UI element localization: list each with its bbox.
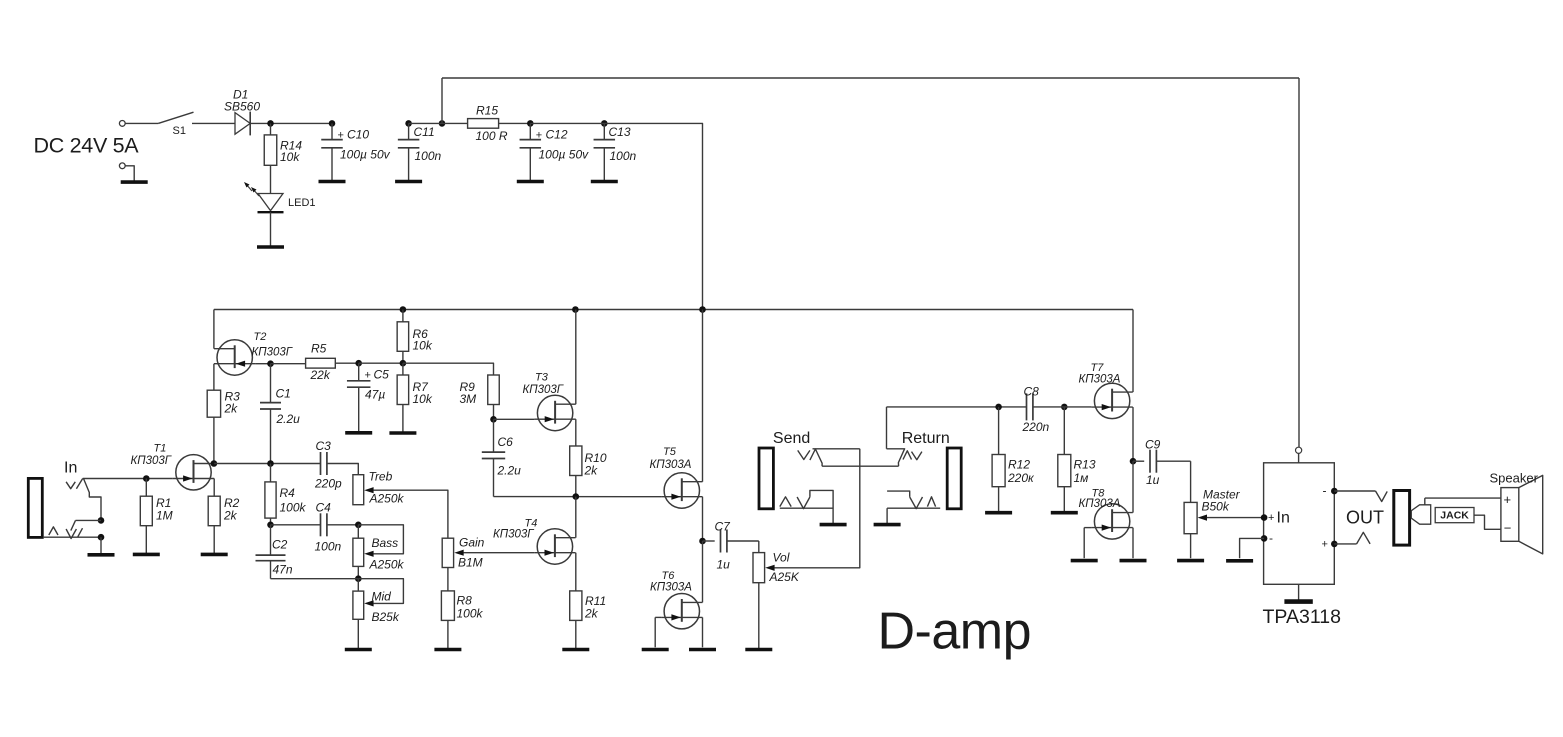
ground for TPA3118 (1284, 599, 1312, 604)
ground for return jack (874, 523, 901, 527)
node rail T3 junction (572, 306, 579, 313)
text Gain value B1M (458, 556, 483, 570)
wire R10 to signal node (575, 476, 577, 497)
input jack ring line (43, 536, 101, 538)
svg-text:47µ: 47µ (365, 388, 385, 402)
potentiometer Master (1184, 502, 1197, 533)
node V+ takeoff junction (439, 120, 446, 127)
svg-text:Gain: Gain (459, 535, 485, 549)
node C1 R4 junction (267, 460, 274, 467)
svg-text:B50k: B50k (1202, 500, 1230, 514)
text T6 type KP303A (650, 582, 692, 594)
wire send tip to Vol riser (813, 448, 860, 450)
svg-text:10k: 10k (413, 339, 433, 353)
wire input ground stem (100, 537, 102, 554)
node input switch junction (98, 517, 105, 524)
capacitor C12 (520, 123, 542, 181)
svg-text:2.2u: 2.2u (276, 412, 301, 426)
svg-text:2k: 2k (223, 508, 238, 522)
capacitor C13 (594, 123, 616, 181)
node T1 drain junction (211, 460, 218, 467)
svg-text:2.2u: 2.2u (497, 463, 522, 477)
capacitor C5 (347, 363, 371, 432)
text R12 value 220k (1007, 471, 1035, 485)
text T1 type KP303G (131, 455, 172, 467)
text TPA minus input sign (1269, 531, 1273, 545)
wire Gain wiper to T4 gate (464, 552, 535, 554)
svg-text:T1: T1 (154, 443, 167, 455)
svg-text:Vol: Vol (773, 551, 790, 565)
svg-text:B1M: B1M (458, 556, 483, 570)
node C12 junction (527, 120, 534, 127)
wire R7 to ground (402, 405, 404, 433)
node TPA out minus pin (1331, 488, 1338, 495)
text T2 label (254, 331, 267, 343)
wire negative terminal to ground (125, 166, 134, 182)
capacitor C2 (256, 525, 286, 579)
svg-text:SB560: SB560 (224, 100, 260, 114)
text T1 label (154, 443, 167, 455)
text speaker minus terminal (1504, 521, 1512, 536)
ground for C5 (345, 431, 372, 435)
transistor T7 (1091, 383, 1132, 418)
send jack ring contact (797, 497, 810, 509)
text C6 label (498, 435, 514, 449)
text S1 label (173, 125, 186, 137)
text C7 value 1u (717, 558, 731, 572)
text T7 label (1091, 362, 1105, 374)
potentiometer Bass (353, 538, 364, 566)
send jack ring stub (810, 490, 833, 524)
text T4 label (525, 518, 538, 530)
text Vol label (773, 551, 790, 565)
svg-text:КП303А: КП303А (1079, 374, 1121, 386)
capacitor C8 (1027, 393, 1033, 420)
text R8 value 100k (457, 607, 484, 621)
wire C3 to Treb (327, 464, 358, 475)
svg-text:Speaker: Speaker (1490, 471, 1539, 486)
capacitor C6 (482, 419, 505, 496)
wire input tip to T1 gate (83, 478, 173, 480)
ground for send jack (820, 523, 847, 527)
send jack body (759, 448, 773, 509)
text C4 value 100n (315, 539, 342, 553)
node C11 junction (405, 120, 412, 127)
svg-text:1u: 1u (717, 558, 731, 572)
node C5 junction (355, 360, 362, 367)
ground for R11 (562, 648, 589, 652)
transistor T4 (534, 529, 575, 564)
wire C4 to Bass node (327, 524, 358, 526)
wire top feed riser (441, 78, 443, 123)
text R10 value 2k (584, 463, 599, 477)
wire R9 bottom (493, 405, 495, 420)
capacitor C7 (703, 530, 759, 553)
node TPA plus input pin (1261, 514, 1268, 521)
node rail R6 junction (400, 306, 407, 313)
text Mid value B25k (372, 610, 400, 624)
text C5 plus sign (365, 369, 371, 381)
text T2 type KP303G (252, 347, 293, 359)
wire T6 source to ground (702, 617, 704, 647)
svg-text:КП303Г: КП303Г (131, 455, 172, 467)
wire R11 to ground (575, 620, 577, 649)
svg-text:Return: Return (902, 430, 950, 447)
text T8 label (1092, 488, 1106, 500)
ground for Mid (345, 648, 372, 652)
send jack tip contact (798, 449, 822, 466)
text C1 label (276, 386, 291, 400)
node C7 junction (699, 538, 706, 545)
wire T3 source to R10 (575, 419, 577, 446)
wire T7 drain riser (1132, 310, 1134, 393)
text R7 value 10k (413, 392, 433, 406)
send jack ring line (780, 507, 833, 509)
text In label (64, 459, 77, 476)
svg-text:C3: C3 (316, 439, 332, 453)
wire C7 to Vol (758, 541, 760, 553)
transistor T3 (534, 395, 575, 430)
wire diode to C10 node (250, 122, 332, 124)
wiper arrow Gain (454, 550, 463, 556)
svg-text:A25K: A25K (769, 570, 800, 584)
svg-text:R8: R8 (457, 593, 473, 607)
wire Bass wiper loop (358, 525, 403, 554)
return jack tip contact (887, 449, 922, 466)
text Gain label (459, 535, 485, 549)
text TPA plus input sign (1268, 512, 1274, 524)
wire Vol wiper to Send riser (774, 449, 859, 568)
node input ring junction (98, 534, 105, 541)
potentiometer Mid (353, 591, 364, 619)
svg-text:100k: 100k (457, 607, 484, 621)
svg-text:10k: 10k (280, 150, 300, 164)
wire R2 to ground (213, 526, 215, 554)
wiper arrow Master (1198, 515, 1207, 521)
potentiometer Gain (442, 538, 453, 567)
text R14 value 10k (280, 150, 300, 164)
text T8 type KP303A (1079, 498, 1121, 510)
transistor T5 (661, 473, 702, 508)
wire T8 gate to ground (1084, 528, 1091, 559)
svg-text:R13: R13 (1074, 458, 1096, 472)
wire R6R7 node to R9 (403, 363, 494, 375)
text C7 label (715, 520, 732, 534)
JACK label box (1435, 508, 1474, 523)
svg-text:C7: C7 (715, 520, 732, 534)
text C2 label (272, 537, 288, 551)
wire plug to speaker plus (1425, 497, 1501, 499)
text T5 label (663, 446, 677, 458)
node R6 R7 junction (400, 360, 407, 367)
svg-text:2k: 2k (224, 402, 239, 416)
svg-text:3M: 3M (460, 392, 477, 406)
svg-text:C12: C12 (546, 128, 568, 142)
wire T4 drain riser (575, 497, 577, 538)
wire R14 to LED1 (270, 165, 272, 193)
svg-text:A250k: A250k (369, 492, 405, 506)
svg-text:220p: 220p (314, 476, 342, 490)
svg-text:C11: C11 (414, 125, 435, 139)
text R13 label (1074, 458, 1096, 472)
capacitor C1 (260, 364, 281, 464)
text C13 label (609, 125, 631, 139)
svg-text:−: − (1504, 521, 1512, 536)
text T7 type KP303A (1079, 374, 1121, 386)
IC TPA3118 body (1264, 463, 1335, 585)
wire R6 bottom (402, 351, 404, 363)
ground for T6 source (689, 648, 716, 652)
node C10 junction (329, 120, 336, 127)
svg-text:100k: 100k (280, 501, 307, 515)
node R9 C6 T3 gate junction (490, 416, 497, 423)
resistor R14 (264, 135, 277, 165)
wire R13 top (1063, 407, 1065, 455)
text C5 label (374, 367, 390, 381)
wire R4 bottom (270, 518, 272, 525)
resistor R1 (140, 496, 152, 526)
input jack ring spring (49, 527, 58, 535)
svg-text:LED1: LED1 (288, 197, 316, 209)
text Master label (1203, 487, 1241, 501)
svg-text:+: + (1504, 492, 1512, 507)
text Treb value A250k (369, 492, 405, 506)
text C5 value 47µ (365, 388, 385, 402)
output jack body (1394, 491, 1410, 546)
wire R7 top (402, 363, 404, 375)
terminal circle negative (119, 163, 125, 169)
text R3 label (225, 389, 241, 403)
transistor T1 (173, 455, 214, 490)
svg-text:T6: T6 (662, 570, 676, 582)
svg-text:КП303А: КП303А (650, 582, 692, 594)
node R4 C4 C2 junction (267, 522, 274, 529)
resistor R5 (271, 358, 359, 368)
text C9 value 1u (1146, 473, 1160, 487)
text C12 plus sign (536, 130, 542, 142)
text R12 label (1008, 458, 1030, 472)
text C1 value 2.2u (276, 412, 301, 426)
text speaker plus terminal (1504, 492, 1512, 507)
wire top feed horizontal (442, 77, 1299, 79)
text C8 value 220n (1022, 420, 1050, 434)
wire T2 gate to node (255, 363, 270, 365)
wire input tip to jack switch (84, 479, 102, 520)
svg-text:+: + (1268, 512, 1274, 524)
text R9 value 3M (460, 392, 477, 406)
text C10 plus sign (338, 130, 344, 142)
svg-text:22k: 22k (310, 368, 331, 382)
text D-amp title (878, 603, 1032, 661)
svg-text:220к: 220к (1007, 471, 1035, 485)
svg-text:КП303Г: КП303Г (523, 384, 564, 396)
wire TPA minus input to ground (1240, 538, 1265, 558)
ground for R13 (1051, 511, 1078, 515)
wire preamp V+ rail (214, 309, 1133, 311)
text JACK label (1440, 510, 1469, 522)
wire T7 source to C9 node (1132, 407, 1134, 461)
resistor R7 (397, 375, 409, 405)
ground for T8 source (1120, 559, 1147, 563)
ground for Master (1177, 559, 1204, 563)
text C8 label (1024, 385, 1040, 399)
ground for Vol (745, 648, 772, 652)
return jack ring line (887, 507, 940, 509)
svg-text:C4: C4 (316, 501, 332, 515)
text Send label (773, 430, 810, 447)
resistor R9 (488, 375, 500, 405)
node TPA minus input pin (1261, 535, 1268, 542)
node TPA out plus pin (1331, 541, 1338, 548)
transistor T6 (661, 594, 702, 629)
text C13 value (610, 149, 637, 163)
wire Master wiper to TPA input (1207, 517, 1264, 519)
ground for R1 (133, 553, 160, 557)
text C11 value (415, 149, 442, 163)
text R11 label (585, 594, 606, 608)
ground for TPA minus input (1226, 559, 1253, 563)
capacitor C11 (398, 123, 420, 181)
capacitor C4 (321, 513, 327, 536)
svg-text:КП303Г: КП303Г (252, 347, 293, 359)
svg-text:C13: C13 (609, 125, 631, 139)
text SB560 value (224, 100, 260, 114)
svg-text:OUT: OUT (1346, 508, 1384, 528)
wiper arrow Treb (364, 487, 373, 493)
wire R12 to ground (998, 487, 1000, 513)
svg-text:JACK: JACK (1440, 510, 1469, 522)
wire return to C8 line (887, 406, 1027, 408)
svg-text:TPA3118: TPA3118 (1263, 606, 1341, 628)
text R2 label (224, 496, 240, 510)
svg-text:КП303А: КП303А (1079, 498, 1121, 510)
svg-text:C5: C5 (374, 367, 390, 381)
wire C2 to Mid node (271, 578, 359, 580)
wire Master to ground (1190, 534, 1192, 559)
input jack body (28, 478, 42, 537)
ground for LED1 (257, 245, 284, 249)
input jack ring tick (71, 520, 76, 530)
svg-text:C9: C9 (1145, 437, 1161, 451)
capacitor C9 (1133, 450, 1191, 473)
capacitor C10 (321, 123, 343, 181)
svg-text:100n: 100n (315, 539, 342, 553)
svg-text:R15: R15 (476, 103, 498, 117)
wire C4 left (271, 524, 321, 526)
text C6 value 2.2u (497, 463, 522, 477)
text Master value B50k (1202, 500, 1230, 514)
text R4 value 100k (280, 501, 307, 515)
text R6 value 10k (413, 339, 433, 353)
svg-text:100n: 100n (415, 149, 442, 163)
text Bass value A250k (369, 557, 405, 571)
svg-text:47n: 47n (273, 563, 293, 577)
wire Gain bottom (447, 568, 449, 591)
svg-text:КП303А: КП303А (650, 459, 692, 471)
node Bass Mid C2 junction (355, 575, 362, 582)
potentiometer Treb (353, 475, 364, 505)
ground for R2 (201, 553, 228, 557)
svg-text:C1: C1 (276, 386, 291, 400)
wire T2 drain riser (213, 310, 215, 349)
svg-text:КП303Г: КП303Г (493, 528, 534, 540)
wire R1 top (145, 479, 147, 497)
svg-text:C8: C8 (1024, 385, 1040, 399)
svg-text:T5: T5 (663, 446, 677, 458)
input jack tip contact (66, 479, 83, 489)
wire T1 source drop (213, 479, 215, 497)
speaker horn (1519, 475, 1543, 554)
svg-text:+: + (1322, 539, 1328, 551)
text R6 label (413, 327, 429, 341)
text R9 label (460, 380, 476, 394)
potentiometer Vol (753, 553, 765, 583)
svg-text:+: + (365, 369, 371, 381)
ground for negative terminal (121, 180, 148, 184)
wire R1 to ground (145, 526, 147, 554)
node R12 junction (995, 404, 1002, 411)
svg-text:100 R: 100 R (476, 129, 508, 143)
wire Vol to ground (758, 583, 760, 649)
svg-text:In: In (64, 459, 77, 476)
svg-text:-: - (1269, 531, 1273, 545)
ground for C13 (591, 180, 618, 184)
resistor R15 (409, 119, 531, 129)
wire T3 gate (494, 418, 535, 420)
text TPA out minus sign (1323, 483, 1327, 497)
wire LED1 to ground (270, 212, 272, 247)
text DC 24V 5A supply label (34, 133, 140, 157)
text Bass label (372, 536, 399, 550)
resistor R11 (570, 591, 582, 621)
node diode/R14 junction (267, 120, 274, 127)
ground for R7 (389, 431, 416, 435)
ground for R8 (434, 648, 461, 652)
text C10 label (347, 128, 369, 142)
svg-text:100n: 100n (610, 149, 637, 163)
text R8 label (457, 593, 473, 607)
svg-text:R12: R12 (1008, 458, 1030, 472)
wire R5 node to R6 R7 node (359, 362, 403, 364)
resistor R13 (1058, 455, 1071, 487)
wire Mid top (357, 579, 359, 591)
wire Mid to ground (357, 619, 359, 649)
text R1 value 1M (156, 508, 173, 522)
text D1 label (233, 88, 248, 102)
resistor R10 (570, 446, 582, 476)
svg-text:2k: 2k (584, 463, 599, 477)
text R5 label (311, 341, 327, 355)
text Mid label (372, 589, 392, 603)
wiper arrow Vol (765, 565, 774, 571)
wire C13 to preamp rail corner (530, 123, 702, 309)
svg-text:100µ 50v: 100µ 50v (539, 148, 590, 162)
wire T2 source drop (213, 364, 215, 391)
ground for C11 (395, 180, 422, 184)
return jack ring spring (927, 497, 935, 507)
wire T6 drain riser (702, 541, 704, 602)
text R10 label (585, 451, 607, 465)
svg-text:2k: 2k (584, 606, 599, 620)
wire T1 drain to tone line (214, 463, 321, 465)
svg-text:-: - (1323, 483, 1327, 497)
text C10 value (340, 148, 391, 162)
wire Mid wiper loop (358, 579, 403, 604)
svg-text:100µ 50v: 100µ 50v (340, 148, 391, 162)
text T3 type KP303G (523, 384, 564, 396)
wire R14 top (270, 123, 272, 134)
text C11 label (414, 125, 435, 139)
